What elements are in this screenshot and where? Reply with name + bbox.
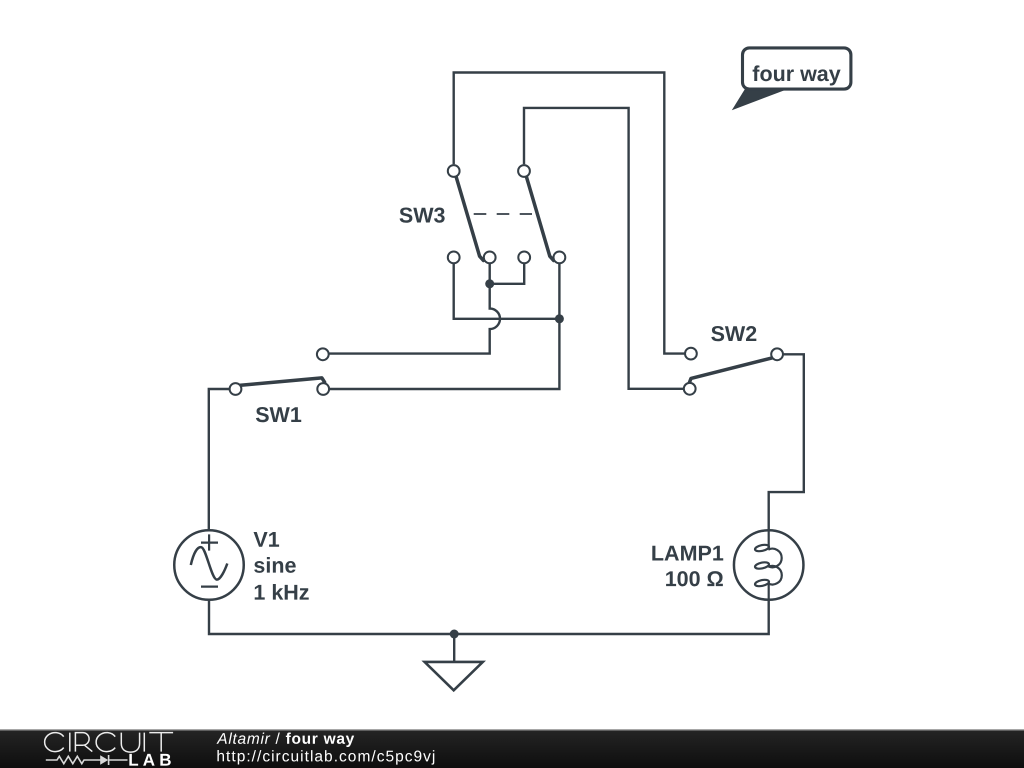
svg-text:LAB: LAB (128, 751, 176, 768)
node junction ground (450, 630, 459, 639)
wire: SW1 common to V1 plus (209, 389, 229, 530)
wire: SW2 common to LAMP1 top (769, 354, 804, 547)
comment bubble "four way" (732, 48, 851, 110)
lamp LAMP1 (651, 530, 804, 600)
wire: bottom net LAMP1 to V1 minus (209, 583, 769, 634)
wire: SW3 throw3 to junction with throw2 (490, 263, 525, 284)
wire: SW3 pole1 up, across top, down to SW2 top throw (454, 73, 685, 354)
CircuitLab logo (45, 733, 173, 753)
footer bar (0, 729, 1024, 768)
node junction SW3 throw2/throw3 (485, 279, 494, 288)
switch SW1 (230, 348, 330, 427)
node junction SW3 throw1/throw4 (555, 314, 564, 323)
svg-text:http://circuitlab.com/c5pc9vj: http://circuitlab.com/c5pc9vj (216, 748, 435, 765)
wire: SW3 throw1 down and right to node junction (454, 263, 560, 319)
voltage source V1 (174, 528, 309, 605)
wire: SW3 throw2 stub down (489, 263, 491, 284)
switch SW2 (684, 322, 783, 395)
wire: ground stem (453, 634, 455, 661)
wire: junction down with hop over crossing to SW1 top throw (329, 284, 500, 354)
switch SW3 (399, 165, 565, 263)
wire: SW3 pole2 up, across, down to SW2 bottom throw (524, 108, 683, 389)
svg-text:Altamir / four way: Altamir / four way (216, 731, 354, 748)
wire: SW3 throw4 down to SW1 bottom throw (330, 263, 560, 389)
ground (425, 662, 483, 690)
